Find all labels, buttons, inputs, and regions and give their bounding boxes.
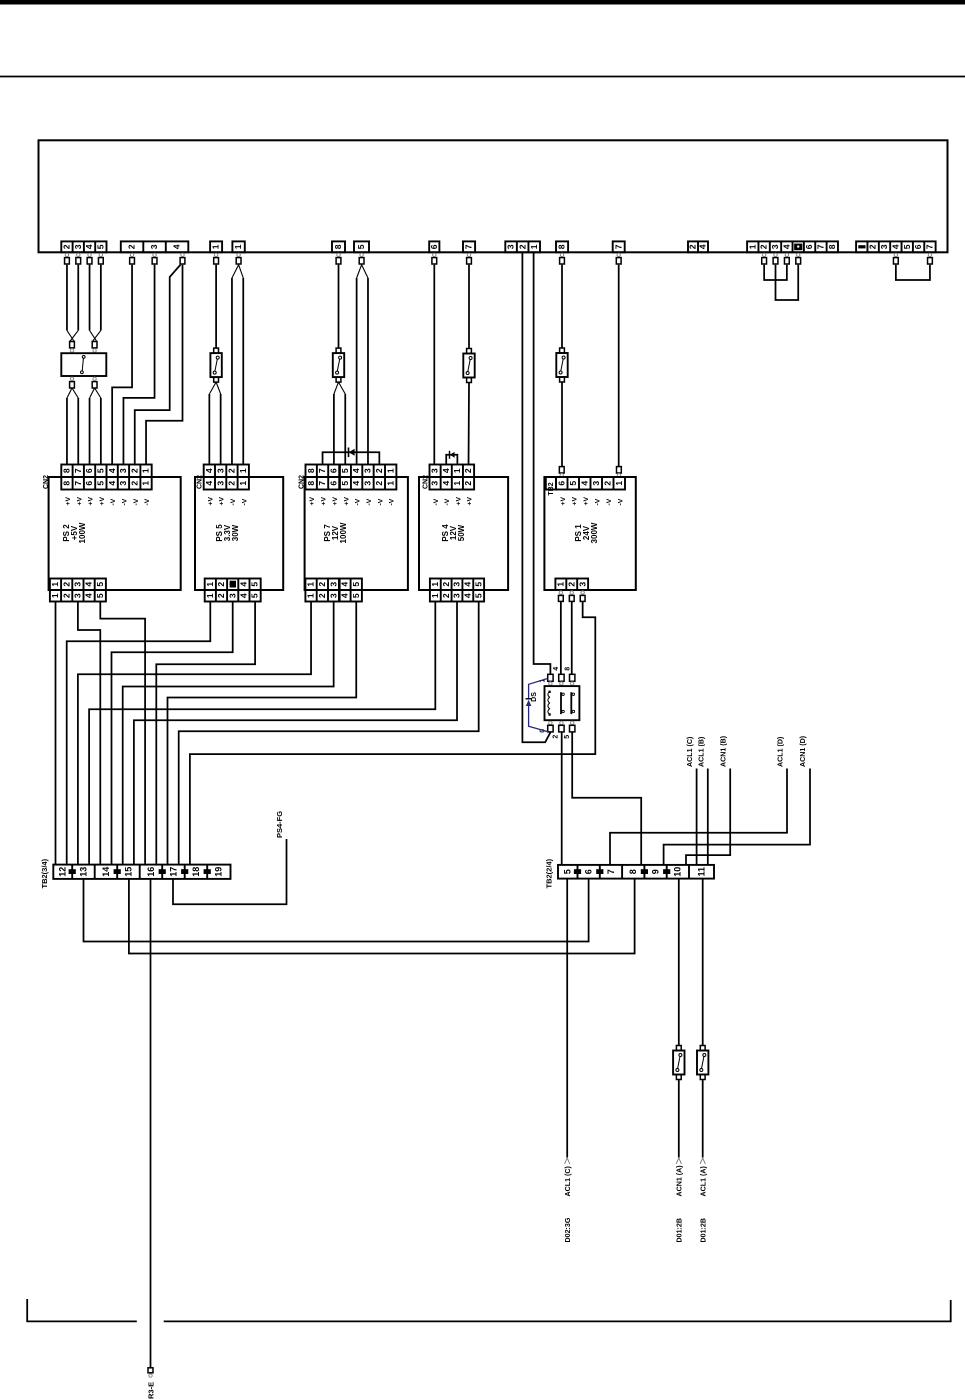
wire J5 to fuse F2: [338, 265, 340, 348]
svg-text:2: 2: [553, 735, 560, 739]
svg-text:2: 2: [127, 244, 137, 249]
svg-text:5: 5: [568, 481, 578, 486]
svg-text:+V: +V: [219, 497, 226, 506]
svg-text:100W: 100W: [339, 522, 348, 543]
svg-text:4: 4: [351, 468, 361, 473]
CN2 connector of PS4 row1: [430, 465, 475, 478]
svg-text:5: 5: [95, 593, 105, 598]
twist crossover pair A: [67, 330, 74, 341]
svg-text:5: 5: [351, 593, 361, 598]
wire PS1 pin2 to DS pin8: [571, 601, 573, 674]
svg-text:1: 1: [306, 593, 316, 598]
svg-text:100W: 100W: [78, 522, 87, 543]
svg-text:4: 4: [172, 244, 182, 249]
power supply PS5 box: [195, 477, 283, 590]
svg-text:2: 2: [759, 244, 769, 249]
power supply PS2 box: [49, 477, 181, 590]
wire split to CN2-PS2 pin6/5: [90, 388, 95, 398]
svg-text:+V: +V: [65, 497, 72, 506]
svg-text:16: 16: [146, 867, 156, 877]
wire TB2 terminal 5 to ACL1(C) below: [566, 879, 568, 1158]
svg-text:D01:2B: D01:2B: [676, 1218, 684, 1242]
svg-text:DS: DS: [531, 692, 538, 702]
link box lower terminals: [70, 377, 73, 380]
connector J5 pin 8 (PS7 fused feed): [332, 241, 345, 252]
terminals below J14 pins 4,7: [894, 253, 897, 256]
wire J6 split to CN2-PS7 pin4/3: [357, 265, 362, 278]
svg-text:-V: -V: [241, 498, 248, 505]
surge diode bracket CN2-PS4 pin4-pin1: [446, 455, 457, 465]
wire J11 to TB2-PS1 pin1: [618, 265, 620, 467]
wire TB2 terminal 15 to terminal 8: [129, 879, 635, 954]
wire harness level 6: [78, 602, 311, 865]
wire TB2 terminal 17 to PS4-FG: [173, 839, 287, 904]
svg-text:3: 3: [328, 582, 338, 587]
CN2 connector of PS7 row1: [306, 465, 397, 478]
svg-text:1: 1: [452, 468, 462, 473]
svg-text:1: 1: [211, 244, 221, 249]
svg-text:2: 2: [216, 582, 226, 587]
svg-text:8: 8: [306, 468, 316, 473]
jumper J13 pin2-pin4: [764, 265, 787, 280]
svg-text:7: 7: [317, 468, 327, 473]
svg-text:4: 4: [107, 481, 117, 486]
svg-text:+V: +V: [76, 497, 83, 506]
wire TB2 terminal 13 to terminal 6: [84, 879, 589, 942]
connector J6 pin 5 (PS7 feed): [354, 241, 369, 252]
svg-text:4: 4: [351, 481, 361, 486]
wire harness level 10: [134, 602, 457, 865]
svg-text:30W: 30W: [231, 524, 240, 541]
svg-text:+V: +V: [309, 497, 316, 506]
svg-text:2: 2: [374, 468, 384, 473]
svg-text:2: 2: [602, 481, 612, 486]
svg-text:8: 8: [628, 869, 638, 874]
output connector PS2 bottom: [50, 579, 106, 591]
svg-text:6: 6: [429, 244, 439, 249]
jumper J13 pin3-pin5: [776, 265, 799, 300]
svg-text:-V: -V: [389, 498, 396, 505]
svg-text:4: 4: [553, 667, 560, 671]
svg-text:1: 1: [555, 582, 565, 587]
svg-text:+V: +V: [343, 497, 350, 506]
fuse F1: [214, 348, 219, 353]
output connector PS7 bottom: [305, 579, 362, 591]
wire J8 to fuse F3: [468, 265, 470, 349]
svg-text:ACL1 (C): ACL1 (C): [564, 1166, 572, 1197]
svg-text:5: 5: [563, 869, 573, 874]
svg-text:6: 6: [804, 244, 814, 249]
svg-text:3: 3: [430, 481, 440, 486]
connector J11 pin 7 (PS1 feed): [613, 241, 625, 252]
svg-text:D01:2B: D01:2B: [700, 1218, 708, 1242]
svg-text:-V: -V: [594, 498, 601, 505]
terminals below J2: [130, 253, 133, 256]
svg-text:5: 5: [95, 468, 105, 473]
svg-text:+V: +V: [332, 497, 339, 506]
terminal above TB2-PS1 pin1: [617, 467, 622, 473]
svg-text:2: 2: [688, 244, 698, 249]
wire DS pin5 to TB2 terminal 8: [572, 732, 641, 865]
wire split to CN2-PS2 pin8/7: [67, 388, 72, 398]
svg-text:1: 1: [50, 582, 60, 587]
CN2 connector of PS4 row2: [430, 477, 475, 490]
svg-text:1: 1: [141, 481, 151, 486]
bottom frame line left with tick: [27, 1299, 137, 1321]
svg-text:1: 1: [238, 468, 248, 473]
svg-text:3: 3: [363, 468, 373, 473]
wire fuse F3 to CN2-PS4 pin2: [468, 383, 470, 465]
svg-text:-V: -V: [617, 498, 624, 505]
connector J9 pins 3-1 (DS relay control): [505, 241, 540, 252]
output connector PS5 pin3 bold mark: [230, 581, 236, 588]
svg-text:7: 7: [613, 244, 623, 249]
svg-text:8: 8: [62, 481, 72, 486]
relay DS bottom terminals: [549, 721, 552, 724]
svg-text:-V: -V: [377, 498, 384, 505]
svg-text:2: 2: [227, 468, 237, 473]
svg-text:PS4-FG: PS4-FG: [275, 811, 284, 838]
CN2 connector of PS2 row1: [61, 465, 151, 478]
wire TB2 terminal 10 to fuse F5: [678, 879, 680, 1046]
svg-text:4: 4: [204, 481, 214, 486]
svg-text:4: 4: [84, 593, 94, 598]
svg-text:7: 7: [816, 244, 826, 249]
twist crossover pair B: [90, 330, 97, 341]
output connector PS4 bottom: [430, 579, 484, 591]
fuse F2: [336, 348, 341, 353]
svg-text:3: 3: [591, 481, 601, 486]
svg-text:4: 4: [340, 593, 350, 598]
svg-text:-V: -V: [606, 498, 613, 505]
svg-text:4: 4: [781, 244, 791, 249]
wire TB2 terminal 16 to R3-E: [150, 879, 152, 1368]
svg-text:3: 3: [430, 468, 440, 473]
svg-text:2: 2: [463, 468, 473, 473]
svg-text:5: 5: [473, 582, 483, 587]
svg-text:3: 3: [73, 582, 83, 587]
svg-text:6: 6: [329, 481, 339, 486]
terminal strip TB2(2/4): [558, 865, 714, 879]
svg-text:14: 14: [101, 867, 111, 877]
svg-text:CN2: CN2: [298, 475, 305, 489]
main unit enclosure box: [39, 140, 948, 252]
svg-text:19: 19: [214, 867, 224, 877]
wire harness level 1: [100, 602, 145, 865]
terminal strip TB2(3/4): [53, 865, 230, 879]
svg-text:-V: -V: [133, 498, 140, 505]
svg-text:D02:3G: D02:3G: [564, 1217, 572, 1242]
svg-text:7: 7: [606, 869, 616, 874]
fuse F3: [467, 349, 472, 354]
svg-text:5: 5: [340, 468, 350, 473]
terminals below J13 pins 2-5: [762, 253, 765, 256]
connector J3 pin 1 (PS5 fused feed): [210, 241, 222, 252]
svg-text:+V: +V: [207, 497, 214, 506]
wire DS pin2 to TB2 terminal 5: [561, 732, 563, 865]
svg-text:-V: -V: [230, 498, 237, 505]
title block separator line: [0, 76, 965, 78]
wire ACN1 (D) to TB2(2/4): [664, 769, 810, 865]
connector J1 pins 2-5 (PS2 feed): [61, 241, 106, 252]
svg-text:3: 3: [452, 582, 462, 587]
svg-text:5: 5: [351, 582, 361, 587]
svg-text:6: 6: [84, 481, 94, 486]
wire harness level 11: [179, 602, 479, 865]
svg-text:3: 3: [215, 468, 225, 473]
svg-text:3: 3: [215, 481, 225, 486]
svg-text:11: 11: [696, 867, 706, 877]
svg-text:8: 8: [62, 468, 72, 473]
wire J2.4 to CN2-PS2 pin1: [146, 265, 182, 465]
connector J14 pin1 bold mark: [858, 245, 865, 248]
svg-text:2: 2: [62, 244, 72, 249]
wire harness level 4: [112, 602, 233, 865]
svg-text:4: 4: [239, 582, 249, 587]
fuse F4: [560, 348, 565, 353]
svg-text:6: 6: [329, 468, 339, 473]
svg-text:2: 2: [463, 481, 473, 486]
svg-text:8: 8: [827, 244, 837, 249]
svg-text:1: 1: [529, 244, 539, 249]
wire J9.1 to DS pin1: [534, 252, 551, 674]
svg-text:4: 4: [890, 244, 900, 249]
wire harness level 2: [78, 602, 100, 865]
svg-text:2: 2: [317, 582, 327, 587]
wire ACL1 (C) to TB2(2/4): [696, 769, 698, 865]
wire pair J1.2/J1.3 down: [66, 265, 68, 331]
svg-text:2: 2: [129, 481, 139, 486]
svg-text:-V: -V: [144, 498, 151, 505]
CN2 connector of PS2 row2: [61, 477, 151, 490]
svg-text:4: 4: [84, 244, 94, 249]
svg-text:1: 1: [50, 593, 60, 598]
wire fuse F5 to ACN1(A): [678, 1080, 680, 1158]
svg-text:6: 6: [583, 869, 593, 874]
svg-text:4: 4: [462, 582, 472, 587]
svg-text:3: 3: [227, 593, 237, 598]
svg-text:3: 3: [363, 481, 373, 486]
svg-text:3: 3: [452, 593, 462, 598]
terminal end R3-E: [148, 1368, 153, 1373]
wire J3 to fuse F1: [215, 265, 217, 348]
terminals below J1: [65, 253, 68, 256]
svg-text:50W: 50W: [457, 524, 466, 541]
connector J10 pin 8 (PS1 fused feed): [556, 241, 568, 252]
fuse F5: [676, 1046, 681, 1051]
TB2 label cell PS1: [546, 477, 556, 490]
svg-text:15: 15: [123, 867, 133, 877]
svg-text:7: 7: [73, 481, 83, 486]
svg-text:R3-E: R3-E: [146, 1382, 155, 1399]
diode D2: [450, 452, 455, 458]
svg-text:3: 3: [770, 244, 780, 249]
terminal above TB2-PS1 pin6: [559, 467, 564, 473]
terminal strip TB2(3/4) jumper links: [69, 869, 76, 874]
svg-text:4: 4: [441, 481, 451, 486]
svg-text:-V: -V: [355, 498, 362, 505]
svg-text:2: 2: [61, 593, 71, 598]
svg-text:7: 7: [925, 244, 935, 249]
wire fuse F4 to TB2-PS1 pin6: [561, 382, 563, 467]
svg-text:3: 3: [879, 244, 889, 249]
svg-text:4: 4: [698, 244, 708, 249]
svg-text:2: 2: [317, 593, 327, 598]
wire pair J1.4/J1.5 down: [89, 265, 91, 331]
svg-text:TB2: TB2: [548, 482, 555, 495]
output connector PS1 bottom: [555, 579, 588, 591]
svg-text:5: 5: [356, 244, 366, 249]
wire harness level 8: [168, 602, 357, 865]
svg-text:ACN1 (B): ACN1 (B): [720, 735, 728, 767]
svg-text:2: 2: [441, 582, 451, 587]
svg-text:CN2: CN2: [422, 475, 429, 489]
svg-text:4: 4: [441, 468, 451, 473]
svg-text:1: 1: [747, 244, 757, 249]
svg-text:+V: +V: [99, 497, 106, 506]
svg-text:ACN1 (D): ACN1 (D): [799, 735, 807, 767]
svg-text:ACL1 (D): ACL1 (D): [776, 736, 784, 767]
svg-text:3: 3: [73, 244, 83, 249]
wire PS1 pin1 to DS pin4: [560, 601, 562, 674]
svg-text:17: 17: [168, 867, 178, 877]
svg-text:4: 4: [204, 468, 214, 473]
connector J8 pin 7 (PS4 fused feed): [463, 241, 475, 252]
output connector PS7 bold divider: [338, 579, 341, 602]
svg-text:9: 9: [650, 869, 660, 874]
svg-text:2: 2: [566, 582, 576, 587]
svg-text:1: 1: [430, 593, 440, 598]
svg-text:2: 2: [216, 593, 226, 598]
wire J7 to CN2-PS4 pin3: [433, 265, 435, 465]
wire ACN1 (B) to TB2(2/4): [686, 769, 730, 865]
svg-text:4: 4: [107, 468, 117, 473]
svg-text:CN2: CN2: [197, 475, 204, 489]
CN2 PS7 bold divider: [338, 465, 341, 490]
svg-text:5: 5: [473, 593, 483, 598]
svg-text:-V: -V: [110, 498, 117, 505]
power supply PS4 box: [419, 477, 508, 590]
connector J7 pin 6 (PS4 feed): [429, 241, 439, 252]
wire J2.2 to CN2-PS2 pin4: [112, 265, 132, 465]
wire J4 split to CN2-PS5 pin2/1: [232, 265, 239, 278]
svg-text:+V: +V: [560, 497, 567, 506]
svg-text:-V: -V: [433, 498, 440, 505]
svg-text:2: 2: [441, 593, 451, 598]
relay DS top terminals: [548, 674, 553, 681]
connector J4 pin 1 (PS5 feed): [232, 241, 244, 252]
flyback diode D3 across DS coil: [529, 679, 548, 699]
svg-text:2: 2: [868, 244, 878, 249]
svg-text:5: 5: [564, 735, 571, 739]
svg-text:6: 6: [84, 468, 94, 473]
svg-text:5: 5: [250, 593, 260, 598]
svg-text:4: 4: [462, 593, 472, 598]
svg-text:5: 5: [95, 481, 105, 486]
svg-text:-V: -V: [444, 498, 451, 505]
wire ACL1 (D) to TB2(2/4): [610, 769, 787, 865]
connector J14 pins 1-7: [856, 241, 936, 252]
svg-text:3: 3: [149, 244, 159, 249]
svg-text:2: 2: [129, 468, 139, 473]
svg-text:1: 1: [233, 244, 243, 249]
svg-text:+V: +V: [88, 497, 95, 506]
wire J2.4 to CN2-PS2 pin2: [135, 265, 181, 465]
svg-text:ACL1 (C): ACL1 (C): [686, 736, 694, 767]
svg-text:8: 8: [333, 244, 343, 249]
svg-text:6: 6: [556, 481, 566, 486]
svg-text:1: 1: [141, 468, 151, 473]
svg-text:1: 1: [614, 481, 624, 486]
jumper J14 pin4-pin7: [896, 265, 930, 280]
svg-text:1: 1: [385, 481, 395, 486]
svg-text:5: 5: [250, 582, 260, 587]
wire PS2 pin1 to TB2(3/4): [55, 602, 57, 865]
TB2 connector of PS1: [556, 477, 625, 490]
svg-text:3: 3: [118, 468, 128, 473]
svg-text:3: 3: [328, 593, 338, 598]
wire harness level 3: [67, 602, 211, 865]
connector J12 pins 2,4 (unused): [688, 241, 708, 252]
wire J10 to fuse F4: [561, 265, 563, 348]
svg-text:1: 1: [205, 582, 215, 587]
svg-text:2: 2: [517, 244, 527, 249]
svg-text:5: 5: [340, 481, 350, 486]
svg-text:+V: +V: [571, 497, 578, 506]
connector J13 pins 1-8: [747, 241, 838, 252]
svg-text:2: 2: [374, 481, 384, 486]
svg-text:3: 3: [577, 582, 587, 587]
svg-text:4: 4: [84, 582, 94, 587]
CN2 connector of PS7 row2: [306, 477, 397, 490]
svg-text:+V: +V: [583, 497, 590, 506]
svg-text:-V: -V: [121, 498, 128, 505]
svg-text:1: 1: [205, 593, 215, 598]
wire harness level 7: [123, 602, 334, 865]
svg-text:7: 7: [464, 244, 474, 249]
svg-text:7: 7: [73, 468, 83, 473]
svg-text:TB2(2/4): TB2(2/4): [545, 858, 554, 888]
wire fuse F6 to ACL1(A): [702, 1080, 704, 1158]
fuse F6: [700, 1046, 705, 1051]
connector J13 pin5 filled mark: [794, 244, 802, 251]
wire harness level 5: [156, 602, 255, 865]
wire ACL1 (B) to TB2(2/4): [707, 769, 709, 865]
output connector PS5 bottom: [205, 579, 261, 591]
svg-text:300W: 300W: [590, 522, 599, 543]
svg-text:8: 8: [565, 667, 572, 671]
wire fuse F1 split to CN2-PS5 pin4/3: [209, 382, 216, 394]
power supply PS1 box: [544, 477, 635, 590]
svg-text:+V: +V: [455, 497, 462, 506]
wire harness level 9: [89, 602, 435, 865]
wire TB2 terminal 11 to fuse F6: [702, 879, 704, 1046]
svg-text:4: 4: [579, 481, 589, 486]
svg-text:1: 1: [306, 582, 316, 587]
surge diode bracket CN2-PS7 pin7-pin2: [323, 452, 380, 464]
svg-text:13: 13: [78, 867, 88, 877]
bottom frame line right with tick: [164, 1300, 951, 1321]
svg-text:ACN1 (A): ACN1 (A): [676, 1165, 684, 1197]
svg-text:1: 1: [385, 468, 395, 473]
svg-text:2: 2: [227, 481, 237, 486]
svg-text:5: 5: [902, 244, 912, 249]
CN2 connector of PS5 row2: [204, 477, 249, 490]
svg-text:18: 18: [191, 867, 201, 877]
wire fuse F2 split to CN2-PS7 pin6/5: [334, 382, 339, 394]
svg-text:+V: +V: [321, 497, 328, 506]
wire J9.2 to DS pin0: [522, 252, 550, 742]
